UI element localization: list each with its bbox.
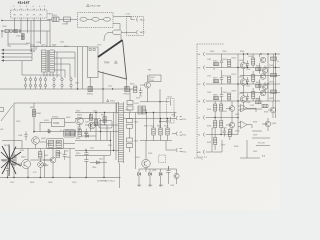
wire funnel right edge down bbox=[126, 79, 128, 89]
svg-text:R617: R617 bbox=[101, 115, 105, 117]
svg-text:D533: D533 bbox=[134, 141, 138, 143]
svg-text:Q521: Q521 bbox=[152, 170, 156, 172]
driver transformer T602 windings bbox=[42, 50, 55, 72]
coil L901a bbox=[80, 17, 87, 21]
thermistor TH901 bbox=[9, 29, 12, 32]
svg-text:IC601: IC601 bbox=[44, 120, 49, 122]
SMPS wires y155.5 bbox=[75, 155, 110, 157]
transistor Q522 small bbox=[174, 173, 179, 178]
svg-text:R905: R905 bbox=[26, 43, 30, 45]
vertical drops to pins bbox=[57, 52, 75, 78]
svg-text:R573: R573 bbox=[232, 74, 236, 76]
junction dots CRT rails bbox=[237, 53, 276, 101]
svg-text:D612: D612 bbox=[84, 133, 88, 135]
svg-text:R598: R598 bbox=[234, 146, 238, 148]
emitter resistor taps bbox=[252, 54, 254, 101]
bottom ground bus bbox=[0, 177, 121, 179]
wire to AC plug 1 bbox=[113, 17, 135, 20]
connector CN601 pin circles row1 bbox=[24, 77, 72, 81]
junction dot bbox=[1, 30, 2, 31]
pin arcs of P901 bbox=[13, 14, 41, 17]
left border wire of PSU bbox=[13, 103, 15, 178]
wire ladder bottom down bbox=[119, 163, 121, 188]
connector stub CN1 bbox=[176, 116, 182, 120]
svg-text:Q601: Q601 bbox=[2, 161, 6, 163]
svg-text:KG: KG bbox=[198, 84, 201, 86]
svg-text:Q586: Q586 bbox=[269, 98, 273, 100]
svg-text:C524: C524 bbox=[170, 185, 174, 187]
svg-text:C615: C615 bbox=[93, 111, 97, 113]
svg-text:R553: R553 bbox=[130, 84, 134, 86]
vertical rails CRT board bbox=[238, 54, 276, 135]
right mid components bbox=[262, 101, 276, 118]
svg-text:R608: R608 bbox=[44, 165, 48, 167]
wire drops from top section bbox=[31, 50, 34, 52]
ground tail bbox=[7, 44, 9, 46]
transistor Q602 bbox=[32, 137, 40, 145]
svg-text:Q576: Q576 bbox=[269, 82, 273, 84]
left margin connector stub bbox=[0, 108, 4, 112]
wire pin3 down bbox=[27, 18, 29, 33]
svg-text:P514: P514 bbox=[182, 152, 186, 154]
capacitor C903 stub bbox=[66, 22, 68, 25]
transistor Q576 bbox=[262, 84, 267, 89]
svg-text:4 1 + 1 4 7: 4 1 + 1 4 7 bbox=[18, 2, 30, 5]
diode D523 bbox=[159, 172, 163, 175]
svg-text:D524: D524 bbox=[148, 153, 152, 155]
SMPS wires y150 bbox=[75, 150, 119, 152]
svg-text:P513: P513 bbox=[182, 135, 186, 137]
svg-text:C602: C602 bbox=[16, 121, 20, 123]
resistor R524 vertical pair left bbox=[138, 106, 141, 114]
svg-text:C585: C585 bbox=[246, 102, 250, 104]
right lower transistor bbox=[262, 118, 276, 131]
svg-text:D603: D603 bbox=[66, 117, 70, 119]
coil L901c bbox=[103, 17, 110, 21]
wire focus tail 1 bbox=[252, 130, 262, 132]
resistor R607 stack a bbox=[39, 152, 42, 159]
line filter T901 (dashed box with coils) bbox=[78, 13, 114, 28]
svg-text:C561: C561 bbox=[207, 59, 211, 61]
label smudges above bus bbox=[30, 45, 56, 47]
labels rectifiers bbox=[134, 103, 139, 143]
capacitor C901 bbox=[20, 29, 21, 33]
wire Q501 emitter down bbox=[147, 88, 149, 102]
diode D602 (circle) bbox=[38, 162, 44, 168]
wire Q601 emitter down bbox=[27, 168, 29, 178]
svg-text:R594: R594 bbox=[207, 126, 211, 128]
resistor R522 bbox=[159, 128, 162, 135]
svg-text:D601: D601 bbox=[20, 150, 24, 152]
extra junction dots CRT bbox=[214, 53, 276, 135]
svg-text:R571: R571 bbox=[213, 78, 218, 80]
svg-text:IC601: IC601 bbox=[53, 122, 60, 125]
pin ticks above P901 bbox=[15, 8, 45, 10]
resistor R610 on fan bbox=[13, 155, 16, 165]
lower cell row 4 bbox=[214, 101, 235, 118]
svg-text:C565: C565 bbox=[246, 69, 250, 71]
transistor Q566 bbox=[262, 68, 267, 73]
svg-text:T601: T601 bbox=[110, 101, 116, 103]
label smudges SMPS bbox=[4, 107, 112, 169]
wire lower out bbox=[113, 24, 120, 31]
CRT pin 2 bbox=[198, 66, 281, 70]
svg-text:D531: D531 bbox=[135, 103, 139, 105]
end ticks bbox=[138, 185, 162, 187]
wire Q521 bbox=[145, 141, 147, 173]
svg-text:Q603: Q603 bbox=[57, 153, 61, 155]
AC inlet dashed box bbox=[127, 17, 144, 36]
wire x70 down bbox=[69, 149, 71, 178]
svg-text:C611: C611 bbox=[90, 148, 94, 150]
mid rails CRT board bbox=[240, 76, 280, 110]
label box Q501 bbox=[149, 75, 161, 82]
svg-text:R906: R906 bbox=[52, 45, 56, 47]
crossing diagonal wire bbox=[1, 105, 13, 121]
secondary rail y118.5 right bbox=[124, 118, 177, 120]
svg-text:Q581: Q581 bbox=[239, 93, 243, 95]
winding bottom taps bbox=[44, 72, 53, 77]
fuse box F901 bbox=[52, 17, 59, 22]
svg-text:R592: R592 bbox=[223, 111, 227, 113]
svg-text:C907: C907 bbox=[41, 45, 45, 47]
SMPS primary wires y118.5 bbox=[75, 118, 100, 120]
connector P901 (dashed header, top-left) bbox=[11, 10, 48, 18]
svg-text:R561: R561 bbox=[213, 61, 218, 63]
CRT pin 6 bbox=[198, 133, 239, 137]
capacitor C565 bbox=[246, 61, 249, 68]
svg-text:R603: R603 bbox=[47, 144, 51, 146]
svg-text:+: + bbox=[136, 87, 137, 89]
horizontal bus y103 bbox=[14, 102, 119, 104]
CRT funnel thick edge bbox=[98, 40, 123, 57]
diode D521 bbox=[137, 172, 141, 175]
svg-text:D902: D902 bbox=[30, 45, 34, 47]
capacitor C605 bbox=[63, 151, 67, 160]
wires to stubs bbox=[166, 134, 176, 151]
SMPS primary wires y125 bbox=[85, 124, 119, 126]
connector stub CN2 bbox=[176, 132, 182, 136]
svg-text:D532: D532 bbox=[134, 122, 138, 124]
svg-text:R618: R618 bbox=[76, 138, 80, 140]
resistor R614 bbox=[78, 130, 81, 137]
wire Q501 base bbox=[140, 84, 145, 86]
dashed option box bbox=[159, 155, 166, 163]
svg-text:0.22: 0.22 bbox=[33, 172, 37, 174]
capacitor C613 bbox=[78, 124, 81, 132]
wire yoke columns bbox=[78, 47, 83, 89]
svg-text:C575: C575 bbox=[246, 86, 250, 88]
resistor R553 right of FR602 bbox=[134, 86, 137, 93]
right emitter taps bbox=[265, 54, 273, 101]
svg-text:R607: R607 bbox=[44, 155, 48, 157]
diode D604 bbox=[48, 129, 51, 133]
fan symbol (radial) bbox=[1, 145, 21, 177]
svg-text:SCHEMATIC No.2: SCHEMATIC No.2 bbox=[97, 180, 116, 183]
svg-text:Q566: Q566 bbox=[269, 65, 273, 67]
label T601 warning bbox=[107, 99, 116, 102]
transistor Q605 bbox=[89, 122, 96, 129]
junction dots on bus bbox=[77, 88, 113, 89]
resistor R611 bbox=[89, 115, 92, 121]
wire under block bbox=[22, 61, 56, 75]
wire y169 feed bbox=[145, 168, 147, 169]
HV transistor Q501 bbox=[145, 82, 151, 88]
transistor Q603 bbox=[50, 157, 56, 163]
svg-text:C571: C571 bbox=[207, 76, 211, 78]
video amp cell G channel bbox=[213, 70, 255, 92]
capacitor C612 bbox=[84, 158, 88, 178]
svg-text:1k: 1k bbox=[213, 69, 215, 71]
svg-text:C614: C614 bbox=[85, 122, 89, 124]
svg-text:R597: R597 bbox=[207, 142, 211, 144]
snubber pair box 2 bbox=[64, 130, 76, 138]
junction dot bbox=[33, 131, 34, 132]
vertical wires SMPS bbox=[91, 103, 117, 156]
junction dots SMPS bbox=[85, 112, 114, 151]
svg-text:C910: C910 bbox=[97, 45, 101, 47]
wire x34 bbox=[33, 103, 35, 133]
svg-text:T90: T90 bbox=[8, 46, 11, 48]
transistor Q604 bbox=[76, 117, 84, 125]
svg-text:C51: C51 bbox=[139, 96, 142, 98]
AC filter line bbox=[2, 30, 50, 32]
svg-text:R581: R581 bbox=[213, 95, 218, 97]
svg-text:C560: C560 bbox=[222, 51, 226, 53]
SMPS wires y131.5 bbox=[75, 131, 119, 133]
deflection yoke DY bbox=[88, 47, 99, 78]
svg-text:Q589: Q589 bbox=[272, 123, 277, 125]
svg-text:YAC1: YAC1 bbox=[140, 18, 146, 21]
right column transistors bbox=[260, 57, 266, 96]
resistor R568 bbox=[256, 68, 262, 71]
resistor R902 (vertical hatched) bbox=[21, 34, 24, 40]
plug pin 2 bbox=[137, 30, 138, 34]
resistor R521 bbox=[152, 128, 155, 135]
resistor R613 bbox=[103, 117, 106, 123]
wires diode bottoms bbox=[139, 176, 177, 186]
transistor Q601 (chopper) bbox=[22, 160, 31, 169]
wires secondary rows bbox=[54, 52, 75, 70]
resistor R613b bbox=[70, 131, 74, 136]
transistor Q521 bbox=[142, 159, 150, 167]
CRT pin 3 bbox=[198, 82, 281, 86]
wire pin5 down bbox=[40, 18, 42, 44]
svg-text:C616: C616 bbox=[92, 167, 96, 169]
relay box RL901 bbox=[64, 17, 71, 22]
wire secondary long vertical bbox=[135, 113, 137, 170]
lower cell row 5 bbox=[214, 118, 235, 135]
svg-text:Q592: Q592 bbox=[235, 131, 239, 133]
svg-text:R568: R568 bbox=[256, 66, 260, 68]
svg-text:C609: C609 bbox=[72, 182, 76, 184]
wire R stack bbox=[39, 149, 41, 178]
dashed stub bottom bbox=[194, 158, 202, 161]
wire filter row bbox=[47, 18, 78, 20]
chopper transformer T601 winding ladder bbox=[119, 102, 124, 163]
HV capacitor C951 bbox=[109, 30, 136, 35]
wire tails bottom right bbox=[252, 138, 270, 146]
wire pin2 down bbox=[20, 18, 22, 33]
capacitor C575 bbox=[246, 77, 249, 84]
resistor R613a bbox=[65, 131, 69, 136]
wire jog bbox=[8, 33, 28, 44]
svg-text:FR601: FR601 bbox=[87, 94, 94, 96]
svg-text:C606: C606 bbox=[66, 157, 70, 159]
left connector J601 arrows bbox=[1, 49, 32, 62]
wire y140.5 left stub bbox=[2, 141, 22, 149]
capacitor C521 bbox=[166, 166, 170, 177]
svg-text:R615: R615 bbox=[76, 111, 80, 113]
secondary rail y112.5 right bbox=[124, 112, 177, 114]
svg-text:R565: R565 bbox=[249, 56, 254, 58]
wire cap top bbox=[8, 163, 15, 165]
wire branch bbox=[34, 123, 75, 132]
video amp cell B channel bbox=[213, 87, 255, 109]
photocoupler PC601 bbox=[99, 121, 112, 129]
svg-text:Q571: Q571 bbox=[239, 77, 243, 79]
SMPS wires y140 bbox=[75, 140, 110, 142]
wire transistor row bbox=[40, 142, 76, 144]
svg-text:R583: R583 bbox=[232, 91, 236, 93]
bus y46.5 bbox=[30, 46, 88, 48]
wire d612 bbox=[81, 132, 96, 141]
svg-text:R563: R563 bbox=[232, 58, 236, 60]
svg-text:R588: R588 bbox=[256, 99, 260, 101]
resistor R612 bbox=[95, 120, 98, 126]
svg-text:L B 1: L B 1 bbox=[126, 14, 132, 16]
capacitor C606b bbox=[43, 150, 47, 178]
connector stub CN3 bbox=[176, 148, 182, 152]
wire gnd drop bbox=[213, 140, 223, 152]
svg-text:F901: F901 bbox=[52, 15, 58, 17]
svg-text:P512: P512 bbox=[182, 119, 186, 121]
svg-text:2SD: 2SD bbox=[150, 80, 154, 82]
svg-text:C906: C906 bbox=[36, 42, 40, 44]
svg-text:C552: C552 bbox=[108, 86, 112, 88]
svg-text:L552: L552 bbox=[75, 83, 79, 85]
resistor R601 (vertical hatched) bbox=[32, 110, 35, 117]
tick marks on bus bbox=[34, 45, 54, 46]
snubber box outline bbox=[47, 139, 64, 149]
wire Q501 collector bbox=[147, 75, 149, 82]
capacitor C585 bbox=[246, 94, 249, 101]
svg-text:D552: D552 bbox=[136, 98, 140, 100]
svg-text:T602: T602 bbox=[56, 75, 60, 77]
svg-text:R609: R609 bbox=[30, 182, 34, 184]
resistor R588 bbox=[256, 101, 262, 104]
svg-text:R595: R595 bbox=[223, 128, 227, 130]
rectifier D532 boxes bbox=[127, 113, 133, 132]
svg-text:R593: R593 bbox=[264, 112, 268, 114]
svg-text:R910: R910 bbox=[64, 46, 68, 48]
wire Q601 collector up bbox=[27, 149, 29, 161]
svg-text:F601: F601 bbox=[30, 107, 34, 109]
wire branch x31 bbox=[30, 21, 32, 53]
CRT pin 4 bbox=[198, 99, 281, 103]
wire pin1 down bbox=[14, 18, 16, 31]
wire collector vertical bbox=[159, 89, 161, 128]
svg-text:Z601: Z601 bbox=[56, 142, 60, 144]
right edge resistors bbox=[271, 57, 277, 93]
CRT board dashed border bbox=[197, 44, 225, 157]
misc label smudges mid bbox=[137, 110, 186, 187]
svg-text:TRW: TRW bbox=[104, 62, 110, 65]
svg-text:R560: R560 bbox=[210, 51, 214, 53]
svg-text:C905: C905 bbox=[16, 36, 20, 38]
resistor R525 bbox=[142, 106, 145, 114]
svg-text:Q591: Q591 bbox=[235, 114, 239, 116]
resistor R901 (hatched) bbox=[14, 30, 18, 33]
wire along ladder left bbox=[115, 103, 117, 160]
wires filter to bus bbox=[47, 31, 50, 47]
wire diode bbox=[90, 162, 107, 164]
wire stub left bbox=[1, 31, 3, 38]
svg-text:R531: R531 bbox=[143, 110, 147, 112]
wire x86 drop bbox=[85, 149, 87, 151]
resistor R606v bbox=[56, 151, 60, 158]
svg-text:C599: C599 bbox=[253, 135, 257, 137]
misc label smudges top bbox=[2, 26, 152, 112]
resistor R578 bbox=[256, 84, 262, 87]
svg-text:1k: 1k bbox=[277, 61, 279, 63]
svg-text:STR50: STR50 bbox=[52, 117, 59, 119]
connector CN601 pin circles row2 bbox=[24, 81, 72, 89]
wire y148.5 bbox=[14, 144, 75, 148]
rectifier D533 boxes bbox=[127, 132, 133, 153]
wire y140.5 secondary bbox=[140, 140, 172, 142]
svg-text:T901 LINE: T901 LINE bbox=[90, 6, 101, 8]
junction dot bbox=[1, 20, 2, 21]
resistor R512 (tall divider) bbox=[167, 99, 175, 124]
fuse F902 bbox=[5, 30, 9, 33]
CRT pin 5 bbox=[198, 116, 239, 120]
label smudges CRT board bbox=[207, 51, 279, 153]
resistor R604 bbox=[49, 140, 54, 147]
svg-text:C597: C597 bbox=[221, 145, 225, 147]
wire y160 bbox=[31, 159, 51, 161]
wire bus under connector bbox=[2, 20, 50, 22]
capacitor C607 bbox=[6, 164, 9, 178]
wire into IC601 bbox=[40, 122, 75, 124]
svg-text:R606: R606 bbox=[64, 151, 68, 153]
capacitor C604 bbox=[25, 132, 28, 141]
op-amp Q587 bbox=[238, 121, 252, 128]
wire oval to funnel corner bbox=[120, 35, 122, 40]
CRT label bbox=[104, 62, 110, 65]
svg-text:GND: GND bbox=[197, 152, 202, 154]
plug pin 1 bbox=[137, 18, 138, 22]
svg-text:R512: R512 bbox=[168, 97, 172, 99]
op-amp Q586 bbox=[238, 105, 256, 112]
svg-text:R564: R564 bbox=[240, 51, 244, 53]
wires into windings bbox=[32, 47, 36, 51]
pin labels above P901 bbox=[13, 6, 46, 8]
diode D522 bbox=[148, 172, 152, 175]
svg-text:C581: C581 bbox=[207, 92, 211, 94]
wire x50 drop bbox=[49, 19, 51, 31]
HV lead curve bbox=[104, 32, 109, 41]
capacitor C902 bbox=[23, 33, 25, 40]
svg-text:D611: D611 bbox=[99, 159, 103, 161]
capacitor C617 bbox=[84, 129, 88, 138]
IC601 box bbox=[52, 119, 65, 127]
svg-text:T601: T601 bbox=[108, 145, 112, 147]
CRT pin 1 bbox=[198, 52, 281, 56]
fusible resistor FR601 on bus bbox=[88, 87, 93, 92]
junction dots secondary bbox=[146, 112, 168, 119]
svg-text:C607: C607 bbox=[10, 182, 14, 184]
